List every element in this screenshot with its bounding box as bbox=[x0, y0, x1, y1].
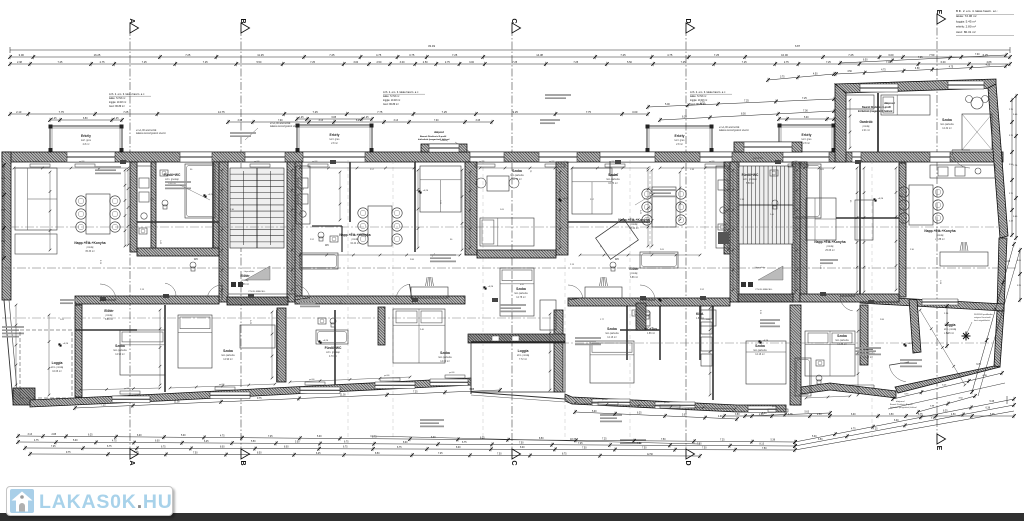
svg-text:lam.parketta: lam.parketta bbox=[753, 349, 767, 352]
svg-text:14.72 m²: 14.72 m² bbox=[863, 356, 873, 359]
svg-text:2.92: 2.92 bbox=[310, 239, 315, 241]
svg-text:4.70 m²: 4.70 m² bbox=[329, 355, 337, 358]
svg-text:+4,24: +4,24 bbox=[563, 198, 569, 200]
svg-text:pm180: pm180 bbox=[709, 161, 715, 163]
svg-text:6.25: 6.25 bbox=[204, 441, 209, 443]
svg-text:3.43: 3.43 bbox=[249, 320, 251, 325]
svg-text:A lh. 2. em. 3. lakás haszn. a: A lh. 2. em. 3. lakás haszn. a.t.: bbox=[383, 90, 419, 94]
svg-text:2.8 m²: 2.8 m² bbox=[83, 143, 90, 146]
svg-text:szm. grestap: szm. grestap bbox=[165, 178, 179, 181]
svg-text:lam.parketta: lam.parketta bbox=[510, 174, 524, 177]
svg-text:25.44 m²: 25.44 m² bbox=[629, 227, 639, 230]
svg-text:1.25: 1.25 bbox=[114, 118, 119, 120]
svg-text:pm180: pm180 bbox=[124, 388, 130, 390]
svg-text:33.49: 33.49 bbox=[428, 44, 435, 48]
svg-text:3.00: 3.00 bbox=[888, 53, 894, 57]
svg-text:5.00: 5.00 bbox=[1006, 261, 1011, 263]
svg-text:6.86 m²: 6.86 m² bbox=[630, 276, 638, 279]
svg-text:Erkély: Erkély bbox=[802, 133, 812, 137]
svg-text:6.50: 6.50 bbox=[83, 118, 88, 120]
svg-text:7.25: 7.25 bbox=[848, 53, 854, 57]
svg-text:6.50: 6.50 bbox=[818, 439, 823, 441]
svg-text:Napp.+Étk.+Konyha: Napp.+Étk.+Konyha bbox=[924, 228, 955, 233]
svg-text:18.37: 18.37 bbox=[570, 438, 577, 441]
svg-text:4.75: 4.75 bbox=[220, 435, 225, 437]
svg-text:2.86: 2.86 bbox=[410, 259, 415, 261]
svg-text:B: B bbox=[239, 460, 246, 465]
svg-text:2.13: 2.13 bbox=[570, 264, 575, 266]
svg-text:60: 60 bbox=[949, 160, 951, 163]
svg-text:+4,24: +4,24 bbox=[423, 190, 429, 192]
svg-text:6.00: 6.00 bbox=[137, 435, 142, 437]
svg-text:7.25: 7.25 bbox=[742, 61, 747, 64]
svg-text:6.25: 6.25 bbox=[943, 410, 948, 412]
svg-text:kent szignálslerkü: kent szignálslerkü bbox=[974, 319, 990, 322]
svg-text:7.25: 7.25 bbox=[413, 391, 418, 393]
svg-text:4.88: 4.88 bbox=[986, 61, 991, 64]
svg-text:7.50: 7.50 bbox=[702, 448, 707, 450]
svg-text:Loggia: Loggia bbox=[945, 323, 956, 327]
svg-text:2.13: 2.13 bbox=[16, 110, 22, 114]
svg-text:7.25: 7.25 bbox=[452, 53, 458, 57]
svg-text:+4,24: +4,24 bbox=[323, 340, 329, 342]
svg-text:5.00: 5.00 bbox=[317, 436, 322, 438]
svg-text:3.50: 3.50 bbox=[889, 414, 894, 416]
svg-text:4.75: 4.75 bbox=[851, 428, 856, 430]
svg-text:7.75: 7.75 bbox=[59, 110, 65, 114]
svg-text:2.75: 2.75 bbox=[100, 61, 105, 64]
svg-text:Lépcsőház: Lépcsőház bbox=[755, 267, 766, 269]
svg-text:4.75: 4.75 bbox=[667, 53, 673, 57]
svg-text:4.75: 4.75 bbox=[34, 440, 39, 442]
svg-text:6.00: 6.00 bbox=[941, 61, 946, 64]
svg-text:Loggia: Loggia bbox=[518, 349, 529, 353]
svg-text:8.50: 8.50 bbox=[257, 453, 262, 455]
svg-text:prodaj: prodaj bbox=[937, 234, 944, 237]
svg-text:8.00: 8.00 bbox=[284, 447, 289, 449]
svg-text:3.00: 3.00 bbox=[632, 110, 638, 114]
svg-text:16.25: 16.25 bbox=[94, 53, 101, 57]
svg-text:Lépcsőház: Lépcsőház bbox=[244, 271, 255, 273]
svg-text:7.25: 7.25 bbox=[681, 61, 686, 64]
svg-text:3.00: 3.00 bbox=[1017, 260, 1022, 262]
svg-text:Gardrób: Gardrób bbox=[859, 120, 872, 124]
svg-text:5.25: 5.25 bbox=[990, 414, 995, 416]
svg-text:szm. prodaj: szm. prodaj bbox=[944, 328, 957, 331]
svg-text:C: C bbox=[510, 18, 517, 23]
svg-text:5.50: 5.50 bbox=[627, 61, 632, 64]
svg-text:1.87 m²: 1.87 m² bbox=[696, 317, 704, 320]
svg-text:6.25: 6.25 bbox=[682, 116, 687, 119]
svg-text:2.8 m²: 2.8 m² bbox=[676, 143, 683, 146]
svg-text:5.63: 5.63 bbox=[805, 412, 810, 414]
svg-text:1.40: 1.40 bbox=[819, 265, 821, 270]
svg-text:8.50: 8.50 bbox=[539, 438, 544, 440]
svg-text:6.75: 6.75 bbox=[343, 447, 348, 449]
svg-text:4.42: 4.42 bbox=[520, 284, 525, 286]
svg-text:3.38: 3.38 bbox=[476, 120, 481, 122]
svg-text:4.25: 4.25 bbox=[986, 65, 991, 67]
svg-text:A: A bbox=[128, 460, 135, 465]
svg-text:12.16 m²: 12.16 m² bbox=[607, 336, 617, 339]
svg-text:lam.parketta: lam.parketta bbox=[606, 178, 620, 181]
svg-text:WC+Tus.: WC+Tus. bbox=[644, 327, 658, 331]
svg-text:2.57: 2.57 bbox=[370, 169, 375, 171]
svg-text:dáéposd: dáéposd bbox=[884, 101, 895, 105]
svg-text:Szoba: Szoba bbox=[440, 351, 450, 355]
svg-text:pm180: pm180 bbox=[479, 161, 485, 163]
svg-text:+4,24: +4,24 bbox=[488, 286, 494, 288]
svg-text:2.30: 2.30 bbox=[910, 249, 915, 251]
svg-text:Szoba: Szoba bbox=[755, 344, 765, 348]
svg-text:6.00: 6.00 bbox=[851, 414, 856, 416]
svg-text:3.75: 3.75 bbox=[918, 414, 923, 416]
svg-text:5.00: 5.00 bbox=[1013, 114, 1018, 116]
svg-text:7.50: 7.50 bbox=[762, 448, 767, 450]
svg-text:szm. prodaj: szm. prodaj bbox=[51, 366, 64, 369]
svg-text:Erkély: Erkély bbox=[675, 134, 685, 138]
svg-text:korl. grés: korl. grés bbox=[330, 138, 341, 141]
svg-text:2.05: 2.05 bbox=[660, 249, 665, 251]
svg-text:Szoba: Szoba bbox=[837, 334, 847, 338]
svg-text:7.25: 7.25 bbox=[313, 110, 319, 114]
svg-text:2.88: 2.88 bbox=[52, 434, 57, 436]
svg-text:11.00: 11.00 bbox=[174, 402, 180, 404]
svg-text:lam.parketta: lam.parketta bbox=[221, 354, 235, 357]
svg-text:Szoba: Szoba bbox=[942, 118, 952, 122]
svg-text:prodaj: prodaj bbox=[352, 238, 359, 241]
svg-text:5.38: 5.38 bbox=[771, 440, 776, 442]
svg-text:14.00 m²: 14.00 m² bbox=[440, 360, 450, 363]
svg-text:4.75: 4.75 bbox=[112, 440, 117, 442]
svg-text:7.25: 7.25 bbox=[442, 110, 448, 114]
svg-text:4.42: 4.42 bbox=[300, 189, 305, 191]
svg-text:össz: 80.31 m²: össz: 80.31 m² bbox=[956, 30, 976, 34]
svg-text:7.75: 7.75 bbox=[586, 110, 592, 114]
svg-text:6.75: 6.75 bbox=[397, 447, 402, 449]
svg-text:7.25: 7.25 bbox=[720, 439, 725, 441]
svg-text:5.45 m²: 5.45 m² bbox=[946, 332, 954, 335]
svg-text:lakatos konszignáció szerint: lakatos konszignáció szerint bbox=[270, 125, 300, 128]
svg-text:1.25: 1.25 bbox=[52, 118, 57, 120]
svg-text:6.25: 6.25 bbox=[356, 120, 361, 122]
svg-text:3.43: 3.43 bbox=[639, 210, 641, 215]
svg-text:Kisd.: Kisd. bbox=[696, 312, 704, 316]
svg-text:Szoba: Szoba bbox=[607, 327, 617, 331]
svg-text:6.25: 6.25 bbox=[316, 453, 321, 455]
svg-text:Szoba: Szoba bbox=[512, 169, 522, 173]
svg-text:össz: 80.89 m²: össz: 80.89 m² bbox=[383, 103, 399, 106]
svg-text:5.50: 5.50 bbox=[251, 441, 256, 443]
svg-text:8.75: 8.75 bbox=[372, 437, 377, 439]
svg-text:D: D bbox=[684, 460, 691, 465]
svg-text:prodaj: prodaj bbox=[106, 314, 113, 317]
svg-text:2.50: 2.50 bbox=[817, 414, 822, 416]
svg-text:8.00: 8.00 bbox=[220, 446, 225, 448]
svg-text:+4,24: +4,24 bbox=[763, 340, 769, 342]
svg-text:pm180: pm180 bbox=[79, 161, 85, 163]
svg-text:4.75: 4.75 bbox=[949, 66, 954, 68]
svg-text:12.50: 12.50 bbox=[647, 454, 653, 456]
svg-text:D: D bbox=[684, 18, 691, 23]
svg-text:1.86 m²: 1.86 m² bbox=[647, 332, 655, 335]
svg-text:6.38: 6.38 bbox=[986, 408, 991, 410]
svg-text:PTH 30 NIKECELL: PTH 30 NIKECELL bbox=[248, 291, 266, 293]
svg-text:pm180: pm180 bbox=[309, 379, 315, 381]
svg-text:pm180: pm180 bbox=[792, 161, 798, 163]
svg-text:5.50: 5.50 bbox=[256, 61, 261, 64]
svg-text:7.25: 7.25 bbox=[268, 436, 273, 438]
svg-text:loggia: 10.48 m²: loggia: 10.48 m² bbox=[109, 101, 126, 104]
svg-text:13.86 m²: 13.86 m² bbox=[837, 343, 847, 346]
svg-text:pm180: pm180 bbox=[664, 402, 670, 404]
svg-text:75: 75 bbox=[529, 170, 531, 173]
svg-text:8.00: 8.00 bbox=[403, 442, 408, 444]
svg-text:7.25: 7.25 bbox=[329, 53, 335, 57]
svg-text:7.50: 7.50 bbox=[582, 447, 587, 449]
svg-text:Szoba: Szoba bbox=[223, 349, 233, 353]
svg-text:5.00: 5.00 bbox=[1013, 216, 1018, 218]
svg-text:2.86: 2.86 bbox=[880, 319, 885, 321]
svg-text:6.75: 6.75 bbox=[976, 364, 981, 366]
svg-text:12.32 m²: 12.32 m² bbox=[942, 127, 952, 130]
svg-text:lam.parketta: lam.parketta bbox=[940, 123, 954, 126]
svg-text:2.57: 2.57 bbox=[590, 199, 595, 201]
svg-text:Előtér: Előtér bbox=[240, 274, 250, 278]
svg-text:6.75: 6.75 bbox=[462, 442, 467, 444]
svg-text:WC: WC bbox=[194, 257, 198, 261]
svg-text:12.78 m²: 12.78 m² bbox=[516, 296, 526, 299]
svg-text:2.8 m²: 2.8 m² bbox=[803, 142, 810, 145]
svg-text:pm180: pm180 bbox=[34, 161, 40, 163]
svg-text:7.25: 7.25 bbox=[512, 61, 517, 64]
svg-text:korl. grés: korl. grés bbox=[81, 139, 92, 142]
svg-text:5.00: 5.00 bbox=[682, 415, 687, 417]
svg-text:prodaj: prodaj bbox=[87, 246, 94, 249]
svg-text:körbefutó (magasított) hálóval: körbefutó (magasított) hálóval bbox=[890, 406, 917, 409]
svg-text:Napp.+Étk.+Konyha: Napp.+Étk.+Konyha bbox=[814, 239, 845, 244]
svg-text:3.75: 3.75 bbox=[1009, 193, 1014, 195]
svg-text:3.00: 3.00 bbox=[400, 61, 405, 64]
svg-text:5.38: 5.38 bbox=[990, 401, 995, 403]
svg-text:10.73 m²: 10.73 m² bbox=[608, 182, 618, 185]
svg-text:7.25: 7.25 bbox=[602, 438, 607, 440]
svg-text:90: 90 bbox=[450, 239, 453, 241]
svg-text:7.25: 7.25 bbox=[58, 61, 63, 64]
svg-text:6.25: 6.25 bbox=[88, 434, 93, 436]
svg-text:7.25: 7.25 bbox=[826, 61, 831, 64]
svg-text:4.75: 4.75 bbox=[376, 53, 382, 57]
svg-text:össz: 80.89 m²: össz: 80.89 m² bbox=[690, 103, 706, 106]
svg-text:lakás: 72.53 m²: lakás: 72.53 m² bbox=[109, 97, 126, 100]
svg-text:7.50: 7.50 bbox=[497, 453, 502, 455]
svg-text:C: C bbox=[510, 460, 517, 465]
svg-text:5.50: 5.50 bbox=[295, 441, 300, 443]
svg-text:szm. prodaj: szm. prodaj bbox=[517, 354, 530, 357]
svg-text:11.73 m²: 11.73 m² bbox=[512, 178, 521, 181]
svg-text:pm180: pm180 bbox=[549, 161, 555, 163]
svg-text:7.25: 7.25 bbox=[142, 61, 147, 64]
svg-text:2.21 m²: 2.21 m² bbox=[862, 129, 870, 132]
svg-text:A lh. 2. em. 3. lakás haszn. a: A lh. 2. em. 3. lakás haszn. a.t.: bbox=[109, 92, 145, 96]
svg-text:7.25: 7.25 bbox=[185, 53, 191, 57]
svg-text:Előtér: Előtér bbox=[629, 267, 639, 271]
svg-text:8.50: 8.50 bbox=[741, 113, 746, 116]
svg-text:3.00: 3.00 bbox=[353, 61, 358, 64]
svg-text:8.00: 8.00 bbox=[520, 447, 525, 449]
svg-text:1.05: 1.05 bbox=[60, 319, 65, 321]
svg-text:6.88: 6.88 bbox=[470, 389, 475, 391]
svg-text:Fürdő+WC: Fürdő+WC bbox=[742, 173, 759, 177]
svg-text:pm180: pm180 bbox=[449, 372, 455, 374]
svg-text:7.50: 7.50 bbox=[637, 443, 642, 445]
svg-text:erkély: 2.80 m²: erkély: 2.80 m² bbox=[956, 25, 976, 29]
svg-text:14.38: 14.38 bbox=[536, 53, 543, 57]
svg-text:szm. grestap: szm. grestap bbox=[326, 351, 340, 354]
svg-text:32.44 m²: 32.44 m² bbox=[350, 242, 360, 245]
svg-text:Napp.+Étk.+Konyha: Napp.+Étk.+Konyha bbox=[618, 217, 649, 222]
svg-text:7.25: 7.25 bbox=[134, 452, 139, 454]
svg-text:7.25: 7.25 bbox=[918, 57, 923, 59]
svg-text:E: E bbox=[935, 10, 942, 15]
svg-text:9.25: 9.25 bbox=[513, 110, 519, 114]
svg-text:1.68: 1.68 bbox=[939, 280, 941, 285]
svg-text:szügess?erszámlő: szügess?erszámlő bbox=[974, 317, 991, 319]
svg-text:7.25: 7.25 bbox=[101, 405, 106, 407]
svg-text:6.00: 6.00 bbox=[155, 441, 160, 443]
svg-text:3.13: 3.13 bbox=[319, 120, 324, 122]
svg-text:7.00: 7.00 bbox=[434, 120, 439, 122]
svg-text:lakatos konszignáció szerint: lakatos konszignáció szerint bbox=[719, 129, 749, 132]
svg-text:7.25: 7.25 bbox=[578, 443, 583, 445]
svg-text:7.25: 7.25 bbox=[123, 110, 129, 114]
svg-text:WLR/DIN paddlestbe: WLR/DIN paddlestbe bbox=[974, 313, 994, 316]
svg-text:3.00: 3.00 bbox=[469, 61, 474, 64]
svg-text:14.75: 14.75 bbox=[218, 110, 225, 114]
svg-text:9.75: 9.75 bbox=[257, 398, 262, 400]
svg-text:+4,24: +4,24 bbox=[663, 298, 669, 300]
svg-text:6.75: 6.75 bbox=[107, 446, 112, 448]
svg-text:loggia: 5.45 m²: loggia: 5.45 m² bbox=[956, 19, 976, 23]
svg-text:1.40: 1.40 bbox=[159, 240, 161, 245]
svg-text:8.13: 8.13 bbox=[760, 444, 765, 446]
svg-text:dáéposd: dáéposd bbox=[434, 131, 444, 134]
svg-text:2.40: 2.40 bbox=[420, 329, 425, 331]
svg-text:7.25: 7.25 bbox=[51, 446, 56, 448]
svg-text:10.06 m²: 10.06 m² bbox=[52, 370, 62, 373]
svg-text:3.13: 3.13 bbox=[238, 120, 243, 122]
svg-text:3.50: 3.50 bbox=[735, 414, 740, 416]
svg-text:7.25: 7.25 bbox=[744, 100, 749, 103]
svg-text:Előtér: Előtér bbox=[104, 309, 114, 313]
svg-text:+4,24: +4,24 bbox=[908, 343, 914, 345]
svg-text:E: E bbox=[935, 446, 942, 451]
svg-text:4.00: 4.00 bbox=[718, 416, 723, 418]
svg-text:Loggia: Loggia bbox=[52, 361, 63, 365]
svg-text:3.75: 3.75 bbox=[780, 77, 785, 79]
svg-text:+4,24: +4,24 bbox=[878, 198, 884, 200]
svg-text:7.25: 7.25 bbox=[310, 61, 315, 64]
svg-text:2.92: 2.92 bbox=[700, 289, 705, 291]
svg-text:3.13: 3.13 bbox=[28, 434, 33, 436]
svg-text:Erkély: Erkély bbox=[81, 134, 91, 138]
svg-text:pm180: pm180 bbox=[384, 375, 390, 377]
svg-text:5.00: 5.00 bbox=[181, 435, 186, 437]
svg-text:5.00: 5.00 bbox=[665, 103, 670, 106]
svg-text:7.25: 7.25 bbox=[714, 53, 720, 57]
svg-text:2.25: 2.25 bbox=[944, 313, 949, 315]
svg-text:7.25: 7.25 bbox=[931, 418, 936, 420]
svg-text:3.75: 3.75 bbox=[409, 53, 415, 57]
svg-text:7.00: 7.00 bbox=[803, 109, 808, 112]
svg-text:12.16 m²: 12.16 m² bbox=[755, 353, 765, 356]
svg-text:12.90 m²: 12.90 m² bbox=[115, 353, 125, 356]
svg-text:2.75: 2.75 bbox=[445, 61, 450, 64]
svg-text:Szoba: Szoba bbox=[608, 173, 618, 177]
svg-text:Szoba: Szoba bbox=[115, 344, 125, 348]
svg-text:2.50: 2.50 bbox=[423, 61, 428, 64]
svg-text:lam.parketta: lam.parketta bbox=[514, 292, 528, 295]
svg-text:6.88: 6.88 bbox=[332, 117, 337, 119]
svg-text:11.25: 11.25 bbox=[257, 53, 264, 57]
svg-text:6.25: 6.25 bbox=[637, 413, 642, 415]
svg-text:2.13: 2.13 bbox=[140, 289, 145, 291]
svg-text:lakás: 72.06 m²: lakás: 72.06 m² bbox=[956, 14, 977, 18]
svg-text:PTH 30 NIKECELL: PTH 30 NIKECELL bbox=[755, 289, 773, 291]
svg-text:pm180: pm180 bbox=[772, 406, 778, 408]
svg-text:Baumit Díszlécés E-profil: Baumit Díszlécés E-profil bbox=[890, 403, 913, 406]
svg-text:+4,24: +4,24 bbox=[63, 343, 69, 345]
svg-text:11.00: 11.00 bbox=[340, 395, 346, 397]
svg-text:8.00: 8.00 bbox=[456, 447, 461, 449]
svg-text:90: 90 bbox=[190, 169, 193, 171]
svg-text:A: A bbox=[128, 18, 135, 23]
svg-text:lam.parketta: lam.parketta bbox=[605, 332, 619, 335]
svg-text:3.50: 3.50 bbox=[915, 68, 920, 70]
svg-text:5.15: 5.15 bbox=[99, 260, 101, 265]
svg-text:8.50: 8.50 bbox=[375, 453, 380, 455]
svg-text:pm 3.43: pm 3.43 bbox=[753, 156, 763, 160]
svg-text:lam.parketta: lam.parketta bbox=[835, 339, 849, 342]
svg-text:2.38: 2.38 bbox=[17, 61, 22, 64]
svg-text:3.13: 3.13 bbox=[394, 120, 399, 122]
svg-text:loggia: 10.48 m²: loggia: 10.48 m² bbox=[690, 99, 707, 102]
svg-text:lam.parketta: lam.parketta bbox=[438, 356, 452, 359]
svg-text:7.25: 7.25 bbox=[873, 429, 878, 431]
svg-text:A lh. 2. em. 3. lakás haszn. a: A lh. 2. em. 3. lakás haszn. a.t.: bbox=[690, 90, 726, 94]
svg-text:35.33 m²: 35.33 m² bbox=[85, 250, 95, 253]
svg-text:+4,24: +4,24 bbox=[208, 194, 214, 196]
svg-text:7.50: 7.50 bbox=[642, 448, 647, 450]
svg-text:23.88 m²: 23.88 m² bbox=[935, 238, 945, 241]
svg-text:8.75: 8.75 bbox=[562, 453, 567, 455]
svg-text:Baumit Díszlécés E-profil: Baumit Díszlécés E-profil bbox=[862, 106, 891, 109]
svg-text:7.25: 7.25 bbox=[802, 97, 807, 100]
svg-text:Fürdő+WC: Fürdő+WC bbox=[325, 346, 342, 350]
svg-text:8.86 m²: 8.86 m² bbox=[105, 318, 113, 321]
svg-text:Baumit Díszlécés E-profil: Baumit Díszlécés E-profil bbox=[420, 135, 447, 138]
svg-text:pm180: pm180 bbox=[312, 161, 318, 163]
svg-text:7.50: 7.50 bbox=[661, 439, 666, 441]
svg-text:pm180: pm180 bbox=[254, 161, 260, 163]
svg-text:7.72 m²: 7.72 m² bbox=[519, 358, 527, 361]
svg-text:prodaj: prodaj bbox=[631, 223, 638, 226]
svg-text:korl. grés: korl. grés bbox=[675, 139, 686, 142]
svg-text:12.90 m²: 12.90 m² bbox=[223, 358, 233, 361]
svg-text:körbefutó (magasított) hálóval: körbefutó (magasított) hálóval bbox=[858, 110, 893, 113]
svg-text:prodaj: prodaj bbox=[242, 279, 249, 282]
svg-text:6.00: 6.00 bbox=[894, 420, 899, 422]
